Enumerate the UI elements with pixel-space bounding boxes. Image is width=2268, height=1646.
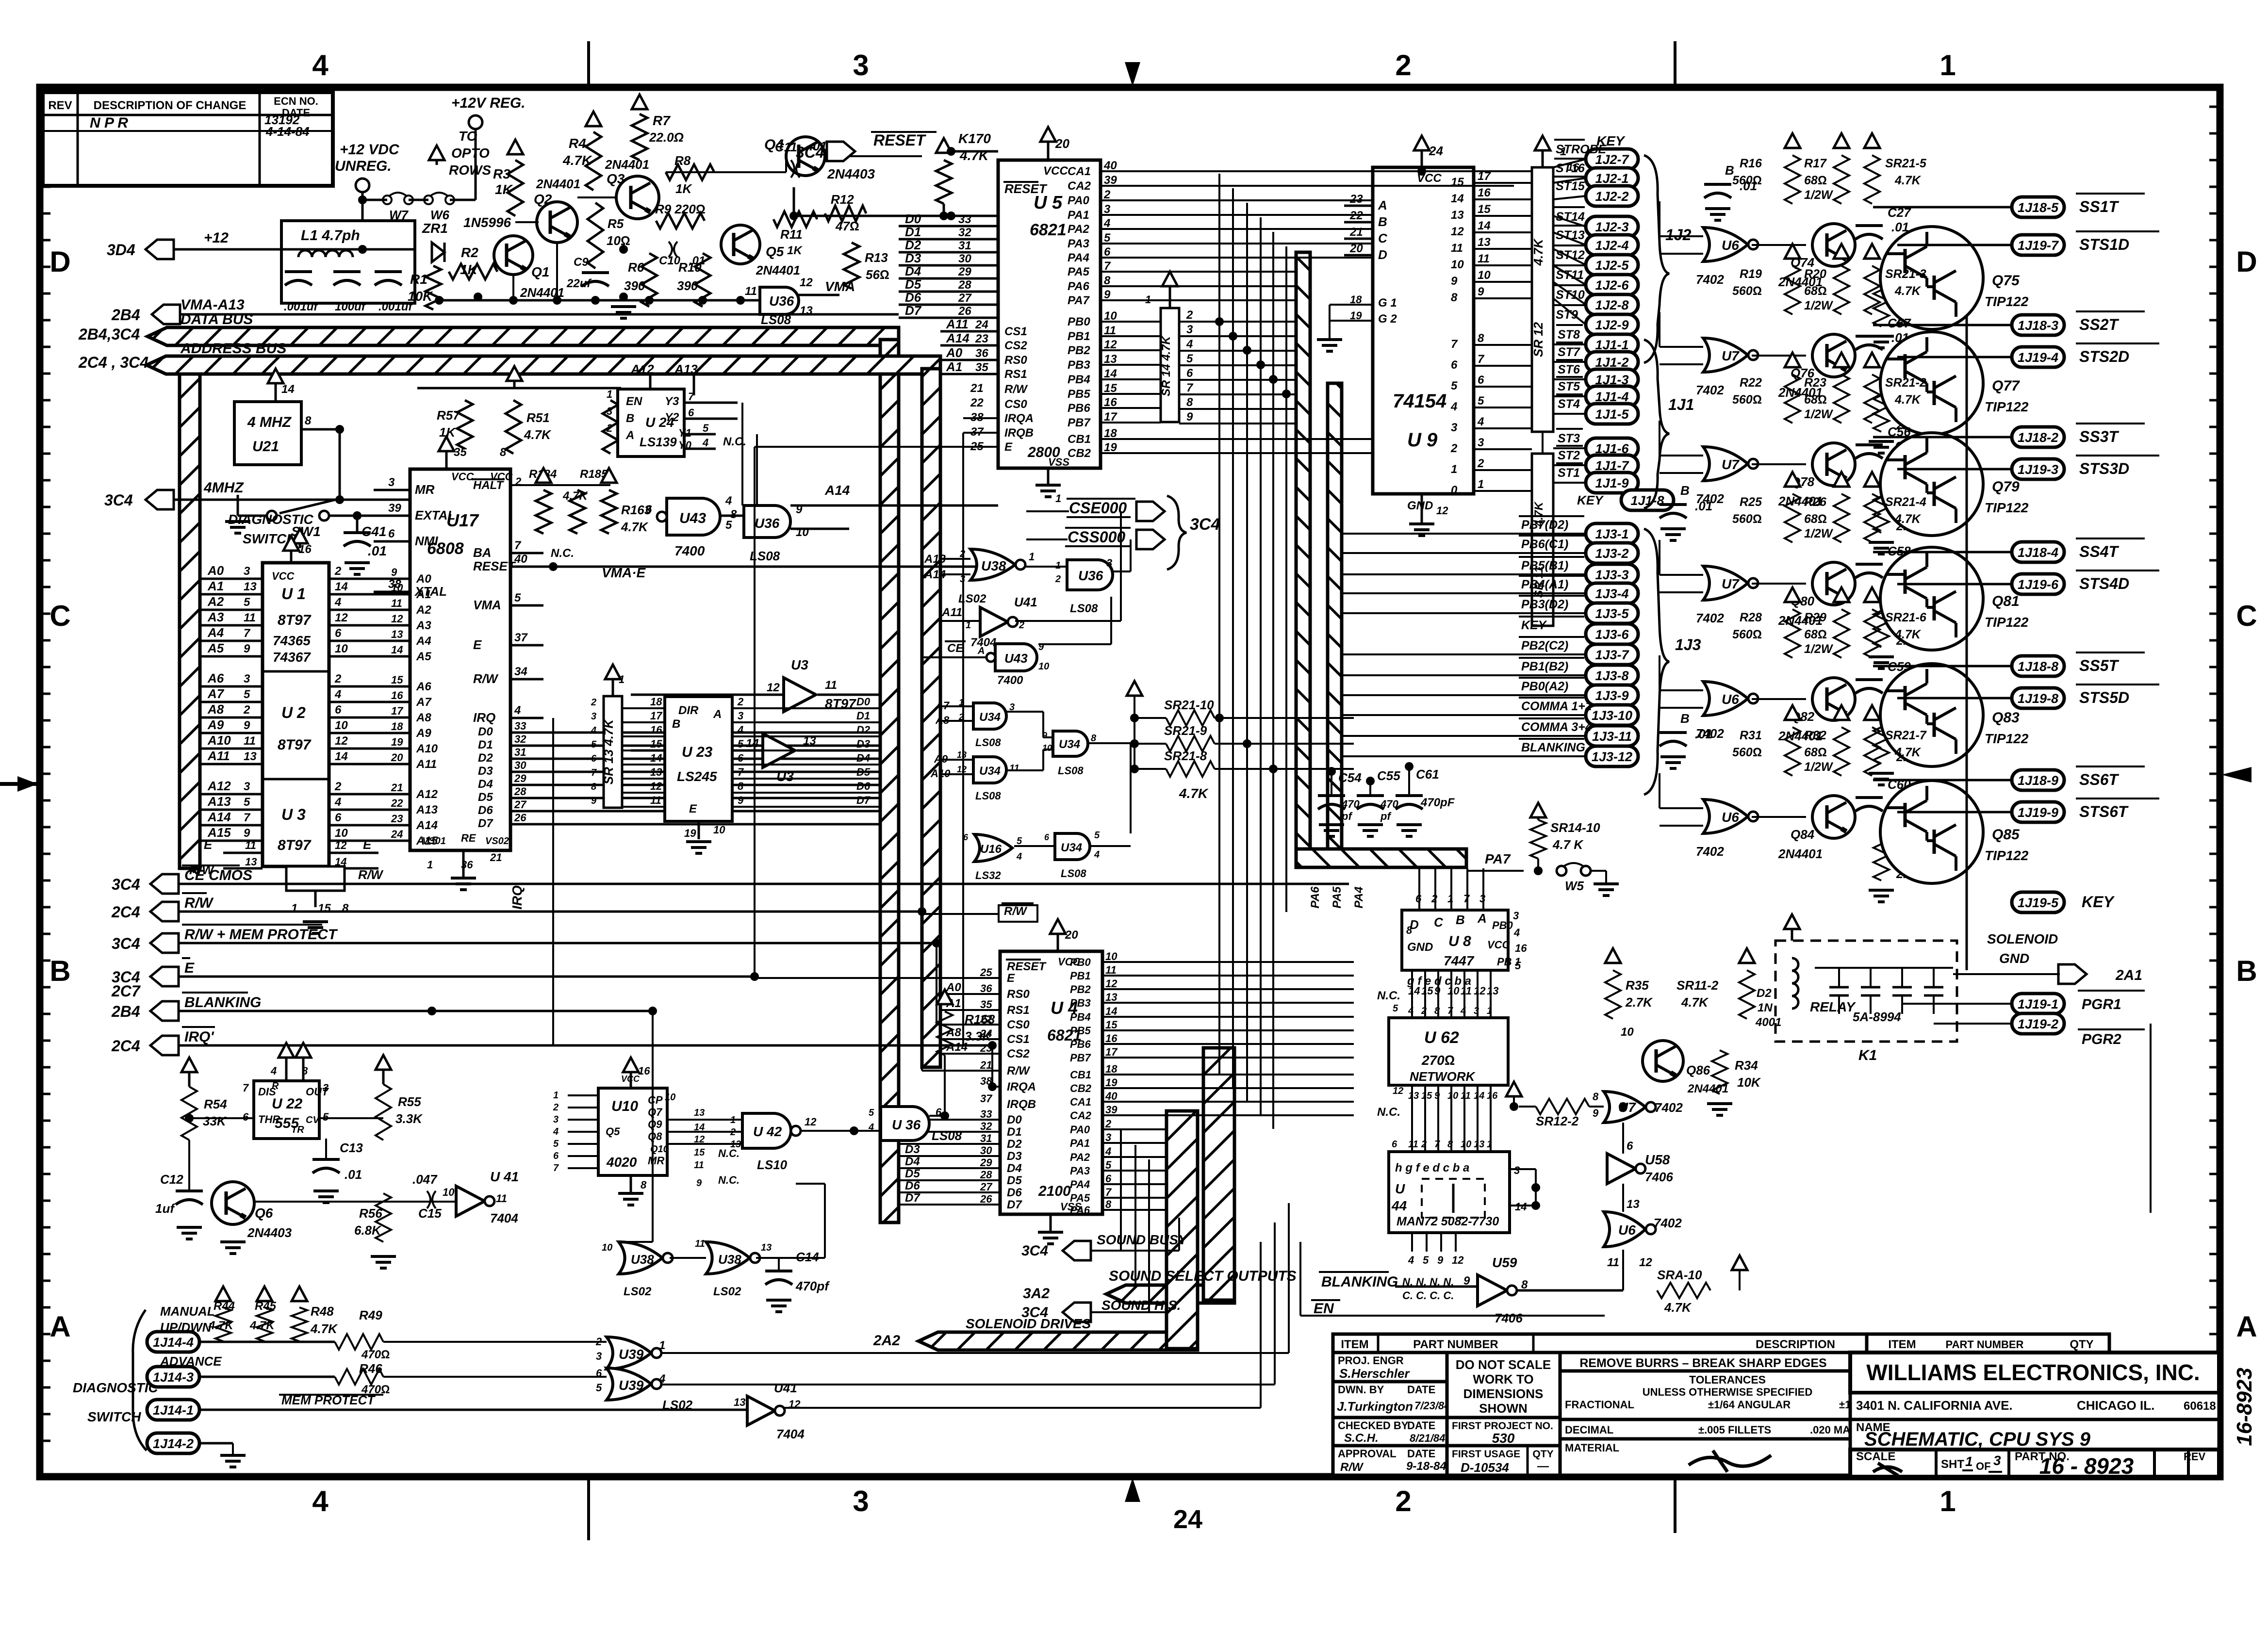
svg-text:TIP122: TIP122 <box>1985 731 2029 746</box>
svg-text:31: 31 <box>514 746 526 758</box>
svg-text:13: 13 <box>734 1396 745 1408</box>
svg-text:13: 13 <box>694 1108 705 1118</box>
svg-text:D3: D3 <box>905 251 921 265</box>
svg-text:PB2: PB2 <box>1068 344 1090 357</box>
svg-text:8T97: 8T97 <box>278 737 312 753</box>
svg-text:2A1: 2A1 <box>2115 967 2142 983</box>
svg-text:PART NUMBER: PART NUMBER <box>1946 1338 2024 1351</box>
svg-text:12: 12 <box>335 734 348 748</box>
svg-text:STS4D: STS4D <box>2079 575 2129 592</box>
svg-text:5: 5 <box>1017 836 1022 847</box>
svg-text:9: 9 <box>1478 285 1484 298</box>
svg-text:R1: R1 <box>410 272 427 287</box>
svg-text:1J1-9: 1J1-9 <box>1595 476 1628 490</box>
svg-text:1J18-8: 1J18-8 <box>2018 659 2058 674</box>
svg-text:15: 15 <box>318 902 331 915</box>
svg-text:5: 5 <box>1451 379 1458 392</box>
svg-text:IRQA: IRQA <box>1004 412 1034 425</box>
svg-text:12: 12 <box>805 1116 817 1128</box>
svg-text:RS1: RS1 <box>1004 368 1027 381</box>
svg-text:0: 0 <box>1451 484 1458 497</box>
svg-text:Q79: Q79 <box>1992 479 2020 495</box>
svg-text:U43: U43 <box>679 510 706 526</box>
svg-text:5: 5 <box>1104 231 1111 244</box>
svg-text:4: 4 <box>702 437 708 449</box>
svg-text:68Ω: 68Ω <box>1804 746 1827 759</box>
svg-text:1: 1 <box>1965 1454 1973 1469</box>
svg-text:A5: A5 <box>416 650 431 663</box>
svg-text:560Ω: 560Ω <box>1732 284 1762 298</box>
svg-text:1J2: 1J2 <box>1665 226 1692 244</box>
svg-text:1: 1 <box>1939 49 1956 81</box>
svg-text:15: 15 <box>1105 1019 1118 1031</box>
svg-text:5: 5 <box>553 1139 559 1149</box>
svg-text:7: 7 <box>1104 260 1111 273</box>
svg-text:D1: D1 <box>905 225 921 239</box>
svg-text:1: 1 <box>1487 1006 1492 1016</box>
svg-text:SS6T: SS6T <box>2079 771 2119 788</box>
svg-text:U34: U34 <box>979 765 1001 778</box>
svg-text:10: 10 <box>713 824 725 836</box>
svg-text:PA4: PA4 <box>1068 251 1089 264</box>
svg-text:9-18-84: 9-18-84 <box>1406 1460 1446 1473</box>
svg-text:6: 6 <box>596 1367 602 1379</box>
svg-text:12: 12 <box>1451 225 1464 238</box>
svg-text:1J3-9: 1J3-9 <box>1595 688 1628 703</box>
svg-text:R31: R31 <box>1740 729 1762 742</box>
svg-text:5: 5 <box>1393 1003 1398 1014</box>
svg-text:.001uf: .001uf <box>284 300 318 313</box>
svg-text:14: 14 <box>1104 367 1117 380</box>
svg-text:2: 2 <box>243 703 250 717</box>
svg-text:1: 1 <box>1029 551 1035 563</box>
svg-text:SR21-9: SR21-9 <box>1164 723 1207 738</box>
svg-text:SR21-4: SR21-4 <box>1885 495 1926 509</box>
svg-text:CHECKED BY: CHECKED BY <box>1338 1419 1409 1432</box>
svg-text:20: 20 <box>1065 929 1078 942</box>
svg-text:7: 7 <box>738 766 744 778</box>
svg-text:A0: A0 <box>207 563 224 578</box>
svg-text:K1: K1 <box>1858 1047 1877 1063</box>
svg-text:U59: U59 <box>1492 1255 1517 1270</box>
svg-text:1/2W: 1/2W <box>1804 642 1834 656</box>
svg-text:WORK TO: WORK TO <box>1473 1372 1533 1386</box>
svg-text:1J19-7: 1J19-7 <box>2018 238 2059 253</box>
svg-text:2: 2 <box>334 672 342 685</box>
svg-text:U 36: U 36 <box>892 1117 921 1132</box>
svg-text:8: 8 <box>500 446 507 459</box>
svg-text:R20: R20 <box>1804 267 1826 281</box>
svg-text:PB2: PB2 <box>1070 983 1091 995</box>
svg-text:J.Turkington: J.Turkington <box>1337 1399 1413 1414</box>
svg-text:14: 14 <box>1451 192 1464 205</box>
svg-text:9: 9 <box>696 1178 702 1189</box>
svg-text:KEY: KEY <box>1577 493 1604 507</box>
svg-text:35: 35 <box>454 446 467 459</box>
svg-text:IRQB: IRQB <box>1007 1098 1036 1111</box>
svg-text:U3: U3 <box>776 769 794 784</box>
svg-text:PB6: PB6 <box>1068 402 1090 415</box>
svg-text:D6: D6 <box>478 804 493 817</box>
svg-text:SR14-10: SR14-10 <box>1550 820 1600 835</box>
svg-text:8: 8 <box>1478 332 1484 345</box>
svg-text:D2: D2 <box>856 724 871 736</box>
svg-text:11: 11 <box>1104 324 1116 337</box>
svg-text:CS2: CS2 <box>1007 1047 1030 1060</box>
svg-text:6: 6 <box>688 407 694 419</box>
svg-text:DATE: DATE <box>1407 1419 1435 1432</box>
svg-text:5: 5 <box>323 1111 329 1123</box>
svg-text:D3: D3 <box>905 1143 920 1156</box>
svg-text:PB3: PB3 <box>1068 359 1090 372</box>
svg-text:PA7: PA7 <box>1485 851 1511 866</box>
svg-text:SS4T: SS4T <box>2079 543 2119 560</box>
svg-text:COMMA 1+2: COMMA 1+2 <box>1521 700 1592 713</box>
svg-text:A2: A2 <box>207 594 224 609</box>
svg-text:4: 4 <box>1105 1145 1111 1157</box>
svg-text:TIP122: TIP122 <box>1985 615 2029 630</box>
svg-text:pf: pf <box>1380 810 1392 822</box>
svg-text:±.005 FILLETS: ±.005 FILLETS <box>1698 1424 1771 1436</box>
svg-text:13: 13 <box>1478 236 1491 249</box>
svg-text:11: 11 <box>695 1239 705 1249</box>
svg-text:D7: D7 <box>905 303 922 318</box>
svg-text:C55: C55 <box>1377 768 1400 783</box>
svg-text:13: 13 <box>244 580 257 593</box>
svg-text:33: 33 <box>514 720 526 732</box>
svg-text:U7: U7 <box>1722 576 1740 591</box>
svg-text:PA3: PA3 <box>1068 237 1090 250</box>
svg-text:A: A <box>625 429 634 442</box>
svg-text:U58: U58 <box>1645 1152 1670 1167</box>
svg-text:C. C. C. C.: C. C. C. C. <box>1402 1289 1454 1302</box>
svg-text:THR: THR <box>258 1113 280 1125</box>
svg-text:APPROVAL: APPROVAL <box>1338 1448 1397 1460</box>
svg-text:h g f e d c b a: h g f e d c b a <box>1395 1161 1469 1174</box>
svg-text:4.7K: 4.7K <box>959 148 989 163</box>
svg-text:11: 11 <box>244 611 256 624</box>
svg-text:5: 5 <box>1186 352 1193 365</box>
svg-text:R9 220Ω: R9 220Ω <box>655 202 706 216</box>
svg-text:PART NUMBER: PART NUMBER <box>1413 1338 1498 1351</box>
svg-text:18: 18 <box>391 720 403 733</box>
svg-text:22: 22 <box>1349 209 1363 222</box>
svg-text:2100: 2100 <box>1038 1183 1071 1199</box>
svg-text:1J3-6: 1J3-6 <box>1595 627 1629 642</box>
svg-text:12: 12 <box>650 780 662 792</box>
svg-text:R/W: R/W <box>1007 1064 1031 1077</box>
svg-text:21: 21 <box>391 782 403 794</box>
svg-text:CA1: CA1 <box>1070 1096 1091 1108</box>
svg-text:R35: R35 <box>1626 978 1649 993</box>
svg-text:6: 6 <box>335 627 342 640</box>
svg-text:CB1: CB1 <box>1070 1069 1091 1081</box>
svg-text:12: 12 <box>1474 985 1486 997</box>
svg-text:U39: U39 <box>619 1378 644 1393</box>
svg-text:PB1: PB1 <box>1068 330 1090 343</box>
svg-text:R45: R45 <box>255 1300 277 1313</box>
svg-text:SR21-6: SR21-6 <box>1885 611 1927 624</box>
svg-text:B: B <box>1725 163 1734 178</box>
svg-text:U36: U36 <box>755 516 780 531</box>
svg-text:IRQB: IRQB <box>1004 426 1034 440</box>
svg-text:1J3-11: 1J3-11 <box>1592 729 1632 744</box>
svg-text:31: 31 <box>958 239 971 252</box>
svg-text:8: 8 <box>738 780 744 792</box>
svg-text:GND: GND <box>1999 951 2029 966</box>
svg-text:19: 19 <box>1105 1076 1118 1089</box>
svg-text:B: B <box>626 412 634 425</box>
svg-text:2N4401: 2N4401 <box>605 157 649 172</box>
svg-text:33: 33 <box>980 1108 992 1120</box>
svg-text:3: 3 <box>853 49 869 81</box>
svg-text:2N4401: 2N4401 <box>756 263 800 277</box>
svg-text:18: 18 <box>650 696 662 708</box>
svg-text:1J19-3: 1J19-3 <box>2018 462 2058 477</box>
svg-text:R57: R57 <box>437 408 460 423</box>
svg-text:1J3-4: 1J3-4 <box>1595 587 1628 601</box>
svg-text:3: 3 <box>1479 893 1485 905</box>
svg-text:15: 15 <box>694 1147 705 1158</box>
svg-text:28: 28 <box>980 1169 992 1181</box>
svg-text:U 62: U 62 <box>1424 1028 1459 1047</box>
svg-text:16: 16 <box>1487 1091 1498 1101</box>
svg-text:3: 3 <box>1993 1453 2001 1468</box>
svg-text:560Ω: 560Ω <box>1732 628 1762 641</box>
svg-text:4: 4 <box>1103 217 1110 230</box>
svg-text:40: 40 <box>1105 1090 1118 1102</box>
svg-text:4: 4 <box>1094 849 1100 860</box>
svg-text:4.7K: 4.7K <box>621 520 649 534</box>
svg-text:4: 4 <box>334 688 341 701</box>
svg-text:10: 10 <box>1038 661 1049 672</box>
svg-text:2B4: 2B4 <box>111 306 140 324</box>
svg-text:7: 7 <box>553 1163 559 1173</box>
svg-text:1N: 1N <box>1758 1001 1773 1014</box>
svg-text:32: 32 <box>514 733 526 745</box>
svg-text:24: 24 <box>391 828 403 840</box>
svg-text:1J19-2: 1J19-2 <box>2018 1017 2058 1031</box>
svg-text:SOUND BUSY: SOUND BUSY <box>1097 1232 1188 1247</box>
svg-text:470pF: 470pF <box>1420 796 1455 809</box>
svg-text:1J19-4: 1J19-4 <box>2018 350 2058 365</box>
svg-text:Q9: Q9 <box>648 1118 662 1130</box>
svg-text:D0: D0 <box>1007 1113 1022 1126</box>
svg-text:U6: U6 <box>1618 1222 1636 1238</box>
svg-text:VCC: VCC <box>1487 939 1511 951</box>
svg-text:7400: 7400 <box>674 543 705 558</box>
svg-text:39: 39 <box>1105 1104 1118 1116</box>
svg-text:ST7: ST7 <box>1558 345 1580 359</box>
svg-text:10: 10 <box>1478 269 1491 282</box>
svg-text:3A2: 3A2 <box>1023 1286 1050 1302</box>
svg-text:1/2W: 1/2W <box>1804 299 1834 312</box>
svg-text:8: 8 <box>1186 396 1193 409</box>
svg-text:6: 6 <box>553 1151 559 1161</box>
svg-text:Q8: Q8 <box>648 1130 662 1142</box>
svg-text:1J14-4: 1J14-4 <box>153 1335 194 1350</box>
svg-text:2: 2 <box>1477 457 1484 470</box>
svg-text:3C4: 3C4 <box>104 491 133 509</box>
svg-text:U10: U10 <box>611 1098 638 1114</box>
svg-text:16: 16 <box>1105 1032 1118 1044</box>
svg-text:1J18-9: 1J18-9 <box>2018 773 2058 788</box>
svg-text:9: 9 <box>1186 410 1193 424</box>
svg-text:2N4403: 2N4403 <box>827 166 875 181</box>
svg-text:11: 11 <box>496 1192 507 1205</box>
svg-text:7406: 7406 <box>1645 1170 1673 1184</box>
svg-text:PB6(C1): PB6(C1) <box>1521 538 1568 551</box>
svg-text:2: 2 <box>1395 49 1411 81</box>
svg-text:10: 10 <box>443 1186 455 1198</box>
svg-text:1K: 1K <box>787 244 803 257</box>
svg-text:A8: A8 <box>416 711 431 724</box>
svg-text:2: 2 <box>1186 309 1193 322</box>
svg-text:4: 4 <box>334 796 341 809</box>
svg-text:1J14-1: 1J14-1 <box>153 1403 194 1418</box>
svg-text:R11: R11 <box>780 227 803 242</box>
svg-text:D6: D6 <box>856 780 871 792</box>
svg-text:C13: C13 <box>340 1141 363 1155</box>
svg-text:1J19-6: 1J19-6 <box>2018 577 2059 592</box>
svg-text:4001: 4001 <box>1755 1016 1781 1029</box>
svg-text:A3: A3 <box>416 619 431 632</box>
svg-text:28: 28 <box>958 278 971 292</box>
svg-text:12: 12 <box>1436 505 1448 517</box>
svg-text:C: C <box>2236 600 2257 632</box>
svg-text:5: 5 <box>244 688 250 701</box>
svg-text:15: 15 <box>650 738 662 750</box>
svg-text:A4: A4 <box>207 625 224 640</box>
svg-text:6: 6 <box>1451 359 1458 372</box>
svg-text:4: 4 <box>334 596 341 609</box>
svg-text:2: 2 <box>1055 574 1061 585</box>
svg-text:68Ω: 68Ω <box>1804 512 1827 526</box>
svg-text:STS2D: STS2D <box>2079 348 2129 365</box>
svg-text:U34: U34 <box>1059 738 1080 751</box>
svg-text:CV: CV <box>306 1115 320 1125</box>
svg-text:4.7K: 4.7K <box>1894 284 1922 298</box>
svg-text:A11: A11 <box>207 749 230 763</box>
svg-text:R16: R16 <box>1740 157 1762 170</box>
svg-text:RESET: RESET <box>1007 960 1047 973</box>
svg-text:CSE000: CSE000 <box>1069 499 1127 517</box>
svg-text:Q2: Q2 <box>534 192 552 207</box>
svg-text:D2: D2 <box>1007 1138 1022 1151</box>
svg-text:ST1: ST1 <box>1558 466 1580 480</box>
svg-text:FIRST PROJECT NO.: FIRST PROJECT NO. <box>1452 1420 1553 1432</box>
svg-text:8: 8 <box>1406 924 1413 936</box>
svg-text:.01: .01 <box>1695 727 1712 741</box>
svg-text:VCC: VCC <box>1043 164 1068 178</box>
svg-text:LS08: LS08 <box>932 1128 962 1143</box>
svg-text:1J19-9: 1J19-9 <box>2018 805 2058 820</box>
svg-text:5: 5 <box>1423 1254 1429 1266</box>
svg-text:19: 19 <box>684 827 696 839</box>
svg-text:Q6: Q6 <box>255 1206 273 1221</box>
svg-text:6: 6 <box>1478 374 1484 387</box>
svg-text:1/2W: 1/2W <box>1804 760 1834 774</box>
svg-text:.01: .01 <box>1695 499 1712 513</box>
svg-text:PB5(B1): PB5(B1) <box>1521 559 1568 572</box>
svg-text:DWN. BY: DWN. BY <box>1338 1384 1384 1396</box>
svg-text:C: C <box>1434 915 1444 929</box>
svg-text:4: 4 <box>1477 415 1484 428</box>
svg-text:R17: R17 <box>1804 157 1827 170</box>
svg-text:1uf: 1uf <box>155 1201 175 1216</box>
svg-text:19: 19 <box>391 736 403 748</box>
svg-text:4.7K: 4.7K <box>208 1319 234 1332</box>
svg-text:4: 4 <box>658 1372 665 1385</box>
svg-text:4020: 4020 <box>606 1155 637 1170</box>
svg-text:9: 9 <box>738 794 744 806</box>
svg-text:21: 21 <box>970 382 984 395</box>
svg-text:1J2-5: 1J2-5 <box>1595 258 1629 273</box>
svg-text:VSS: VSS <box>1048 456 1069 468</box>
svg-text:VS02: VS02 <box>485 836 509 847</box>
svg-text:PB6: PB6 <box>1070 1038 1091 1050</box>
svg-text:D7: D7 <box>1007 1198 1022 1211</box>
svg-text:4.7K: 4.7K <box>1894 628 1922 641</box>
svg-text:A1: A1 <box>946 359 962 374</box>
svg-text:1J3-8: 1J3-8 <box>1595 668 1628 683</box>
svg-text:3: 3 <box>1478 436 1484 449</box>
svg-text:390: 390 <box>677 278 698 293</box>
svg-text:8: 8 <box>1593 1091 1599 1103</box>
svg-text:11: 11 <box>1408 1139 1418 1150</box>
svg-text:VS01: VS01 <box>422 836 446 847</box>
svg-text:5A-8994: 5A-8994 <box>1853 1010 1901 1024</box>
svg-text:11: 11 <box>745 285 757 298</box>
svg-text:14: 14 <box>335 580 348 593</box>
svg-text:CA2: CA2 <box>1068 179 1091 193</box>
svg-text:6: 6 <box>1104 245 1111 259</box>
svg-text:9: 9 <box>1437 1254 1444 1266</box>
svg-text:E: E <box>184 960 195 976</box>
svg-text:STS1D: STS1D <box>2079 236 2129 253</box>
svg-text:1K: 1K <box>460 262 478 277</box>
svg-text:IRQ': IRQ' <box>184 1029 214 1045</box>
svg-text:R/W + MEM PROTECT: R/W + MEM PROTECT <box>184 927 338 943</box>
svg-text:10Ω: 10Ω <box>607 233 630 248</box>
svg-text:4: 4 <box>591 725 596 736</box>
svg-text:R23: R23 <box>1804 376 1826 390</box>
svg-text:4: 4 <box>553 1126 559 1137</box>
svg-text:E: E <box>363 837 372 852</box>
svg-text:2: 2 <box>1450 442 1458 455</box>
svg-text:PA6: PA6 <box>1070 1204 1090 1216</box>
svg-text:4: 4 <box>270 1065 277 1077</box>
svg-text:SR11-2: SR11-2 <box>1676 978 1719 993</box>
svg-text:8T97: 8T97 <box>278 837 312 853</box>
svg-text:100uf: 100uf <box>335 300 366 313</box>
svg-text:31: 31 <box>980 1132 992 1144</box>
svg-text:30: 30 <box>980 1144 992 1157</box>
svg-text:A13: A13 <box>207 794 231 809</box>
svg-text:SR21-8: SR21-8 <box>1164 749 1207 763</box>
svg-text:OF: OF <box>1976 1460 1991 1472</box>
svg-text:16: 16 <box>1104 396 1117 409</box>
svg-text:2N4401: 2N4401 <box>536 177 580 191</box>
svg-text:D: D <box>49 245 70 278</box>
svg-text:3.3K: 3.3K <box>395 1111 423 1126</box>
svg-text:1: 1 <box>427 859 433 871</box>
svg-text:7402: 7402 <box>1696 383 1724 397</box>
svg-text:7402: 7402 <box>1696 844 1724 859</box>
svg-text:5: 5 <box>514 591 521 604</box>
svg-text:U36: U36 <box>1078 568 1103 583</box>
svg-text:6: 6 <box>1044 832 1050 842</box>
